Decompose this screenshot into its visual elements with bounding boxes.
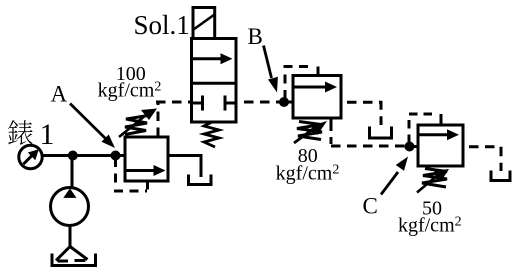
svg-text:kgf/cm2: kgf/cm2 (276, 163, 340, 185)
value label 100 kgf/cm2 (98, 63, 162, 102)
return spring of S1 (204, 122, 219, 147)
value label 50 kgf/cm2 (398, 198, 462, 237)
spring of V2 (adjustable, below box) (294, 121, 327, 143)
node junction at valve V1 inlet (111, 151, 121, 161)
dashed outlet of V3 to tank (463, 147, 501, 171)
dashed drain from V2 down (330, 123, 333, 144)
leader arrow from C to node C (381, 157, 408, 195)
dashed outlet of V2 to tank (341, 102, 381, 125)
solenoid symbol of valve S1 (193, 8, 215, 39)
wire: pump riser (71, 156, 74, 189)
leader arrow from B to node B (264, 46, 278, 93)
leader arrow from A to node (70, 104, 115, 149)
pilot dashed line from V1 top to main pilot run (157, 102, 160, 137)
dashed run from V2 drain to node C (331, 145, 405, 148)
stub into V2 top (317, 67, 320, 77)
tank T2 at V1 outlet (189, 175, 212, 185)
main pilot dashed run from S1 to node B (236, 101, 281, 104)
flow arrow inside V3 (420, 129, 460, 140)
stub into V3 top (440, 114, 443, 125)
gauge G1 (pressure gauge, circle with needle) (19, 145, 42, 168)
suction strainer legs (56, 247, 88, 262)
node B junction (279, 97, 289, 107)
pilot drain of V1: dashed drop from node (114, 158, 117, 187)
wire: supply line from gauge to valve V1 (42, 154, 125, 157)
flow arrow in S1 upper position (193, 53, 233, 64)
tank T4 at V3 outlet (491, 171, 510, 181)
node junction to pump (68, 151, 78, 161)
spring of V1 (adjustable, above box) (119, 109, 157, 138)
tank T3 at V2 outlet (370, 127, 392, 139)
value label 80 kgf/cm2 (276, 145, 340, 184)
node C junction (405, 142, 415, 152)
wire: pump suction line (69, 226, 72, 248)
drain stub below V2 (330, 118, 333, 123)
sequence valve V2 body (80 kgf/cm2) (293, 76, 341, 119)
svg-text:A: A (51, 82, 68, 107)
pilot dashed from node B up and over to V2 top (285, 67, 312, 100)
wire: V1 outlet to tank (168, 156, 201, 178)
pilot drain of V1: dashed bottom run (114, 190, 147, 193)
pump P1 (circle with upward triangle) (51, 188, 89, 226)
label 錶 (gauge) (8, 120, 33, 145)
stub from V1 bottom to pilot drain (146, 181, 149, 190)
flow arrow inside V1 (127, 165, 166, 176)
wire: node B to valve V2 (284, 101, 293, 104)
main pilot dashed run to solenoid valve (156, 101, 192, 104)
svg-text:B: B (248, 24, 263, 49)
flow arrow inside V2 (295, 82, 338, 93)
pilot dashed from node C up and over to V3 top (409, 114, 437, 143)
tank T1 under pump (52, 254, 96, 266)
sequence valve V3 body (50 kgf/cm2) (418, 125, 463, 166)
svg-text:C: C (363, 194, 378, 219)
svg-text:Sol.1: Sol.1 (134, 10, 190, 40)
wire: node C to valve V3 (410, 145, 419, 148)
blocked ports in S1 lower position (192, 96, 237, 111)
relief valve V1 body (100 kgf/cm2) (125, 137, 168, 181)
solenoid valve S1 body (2-position) (192, 39, 237, 123)
svg-text:kgf/cm2: kgf/cm2 (398, 215, 462, 237)
svg-text:1: 1 (40, 118, 55, 151)
svg-text:kgf/cm2: kgf/cm2 (98, 80, 162, 102)
spring of V3 (adjustable, below box) (417, 169, 449, 193)
